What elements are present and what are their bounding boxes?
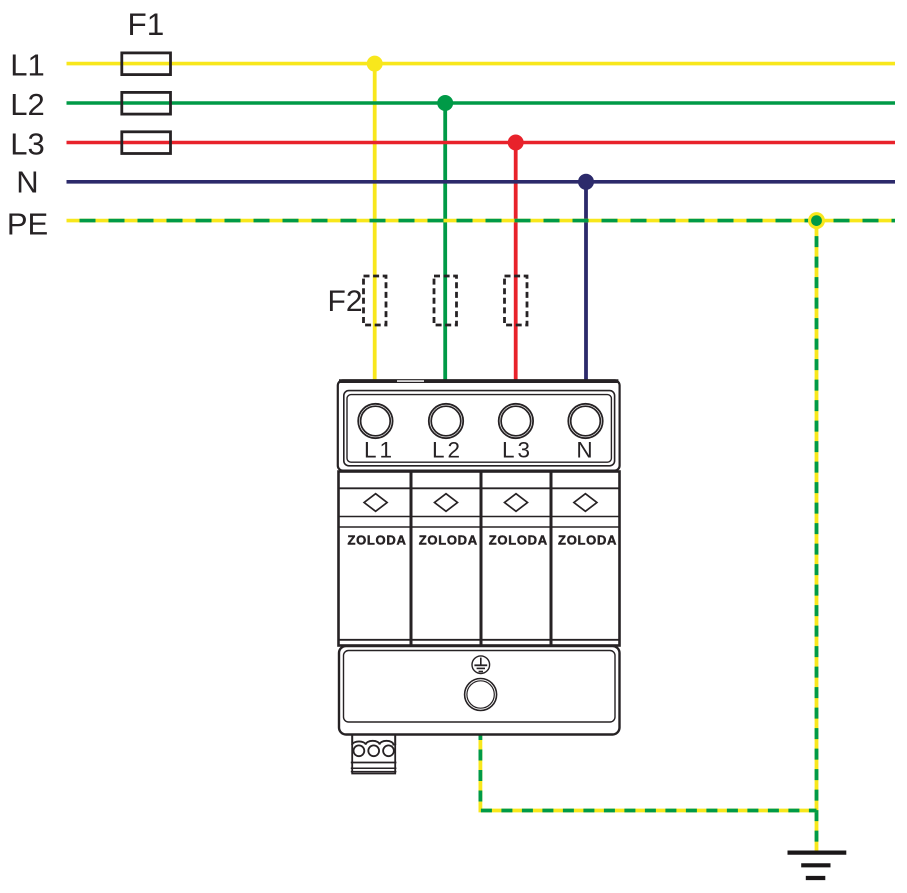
wire PE riser (green/yellow dashed vertical to earth electrode) (815, 221, 819, 853)
svg-text:ZOLODA: ZOLODA (558, 533, 617, 548)
svg-text:ZOLODA: ZOLODA (419, 533, 478, 548)
wire L3 bus (red horizontal) (67, 141, 896, 145)
SPD terminal L2 screw (429, 404, 463, 438)
junction node on L2 bus (437, 95, 453, 111)
wire N drop (navy vertical from N bus to SPD terminal N) (584, 182, 588, 381)
fuse F1 element on L2 (122, 92, 171, 114)
fuse F1 element on L3 (122, 132, 171, 154)
svg-text:N: N (576, 437, 595, 462)
wire L2 drop (green vertical from L2 bus to SPD terminal L2) (443, 103, 447, 381)
fuse F1 element on L1 (122, 53, 171, 75)
svg-text:F1: F1 (128, 6, 165, 42)
SPD earth terminal circle (465, 679, 497, 711)
svg-text:L1: L1 (10, 48, 44, 83)
junction node on N bus (578, 174, 594, 190)
SPD top edge highlight sliver (397, 380, 424, 382)
svg-text:ZOLODA: ZOLODA (347, 533, 406, 548)
wire L1 drop (yellow vertical from L1 bus to SPD terminal L1) (373, 64, 377, 381)
junction node on L3 bus (508, 135, 524, 151)
wire PE bus (green/yellow dashed horizontal) (67, 219, 896, 223)
svg-text:L2: L2 (432, 437, 463, 462)
status window module 4 (574, 494, 597, 512)
SPD U1 terminal head outline (338, 380, 620, 470)
SPD module dividers (411, 472, 551, 648)
junction node on L1 bus (367, 56, 383, 72)
SPD terminal L3 screw (499, 404, 533, 438)
SPD terminal N screw (568, 404, 602, 438)
earth electrode (ground) symbol (788, 853, 847, 878)
svg-text:PE: PE (7, 206, 48, 241)
fuse F2 element on L2 drop (dashed) (434, 276, 457, 325)
SPD base outline (339, 646, 620, 735)
fuse F2 element on L1 drop (dashed) (364, 276, 387, 325)
wire N bus (navy horizontal) (67, 180, 896, 184)
wire L2 bus (green horizontal) (67, 101, 896, 105)
protective earth symbol on SPD base (472, 656, 490, 674)
svg-text:L2: L2 (10, 87, 44, 122)
status window module 2 (435, 494, 458, 512)
SPD terminal L1 screw (358, 404, 392, 438)
SPD module face lines (339, 488, 620, 640)
SPD module body outline (339, 472, 620, 646)
svg-text:F2: F2 (328, 285, 363, 318)
junction node on PE bus (808, 212, 825, 229)
svg-text:ZOLODA: ZOLODA (489, 533, 548, 548)
wire SPD earth lead (green/yellow dashed L-shape from SPD base to PE riser) (480, 735, 816, 811)
status window module 3 (505, 494, 528, 512)
svg-text:L3: L3 (10, 126, 44, 161)
svg-text:L1: L1 (364, 437, 395, 462)
fuse F2 element on L3 drop (dashed) (505, 276, 528, 325)
svg-text:N: N (16, 165, 38, 200)
auxiliary contact terminal block (351, 736, 397, 774)
wire L3 drop (red vertical from L3 bus to SPD terminal L3) (514, 143, 518, 382)
status window module 1 (364, 494, 387, 512)
wire L1 bus (yellow horizontal) (67, 62, 896, 66)
svg-text:L3: L3 (502, 437, 533, 462)
